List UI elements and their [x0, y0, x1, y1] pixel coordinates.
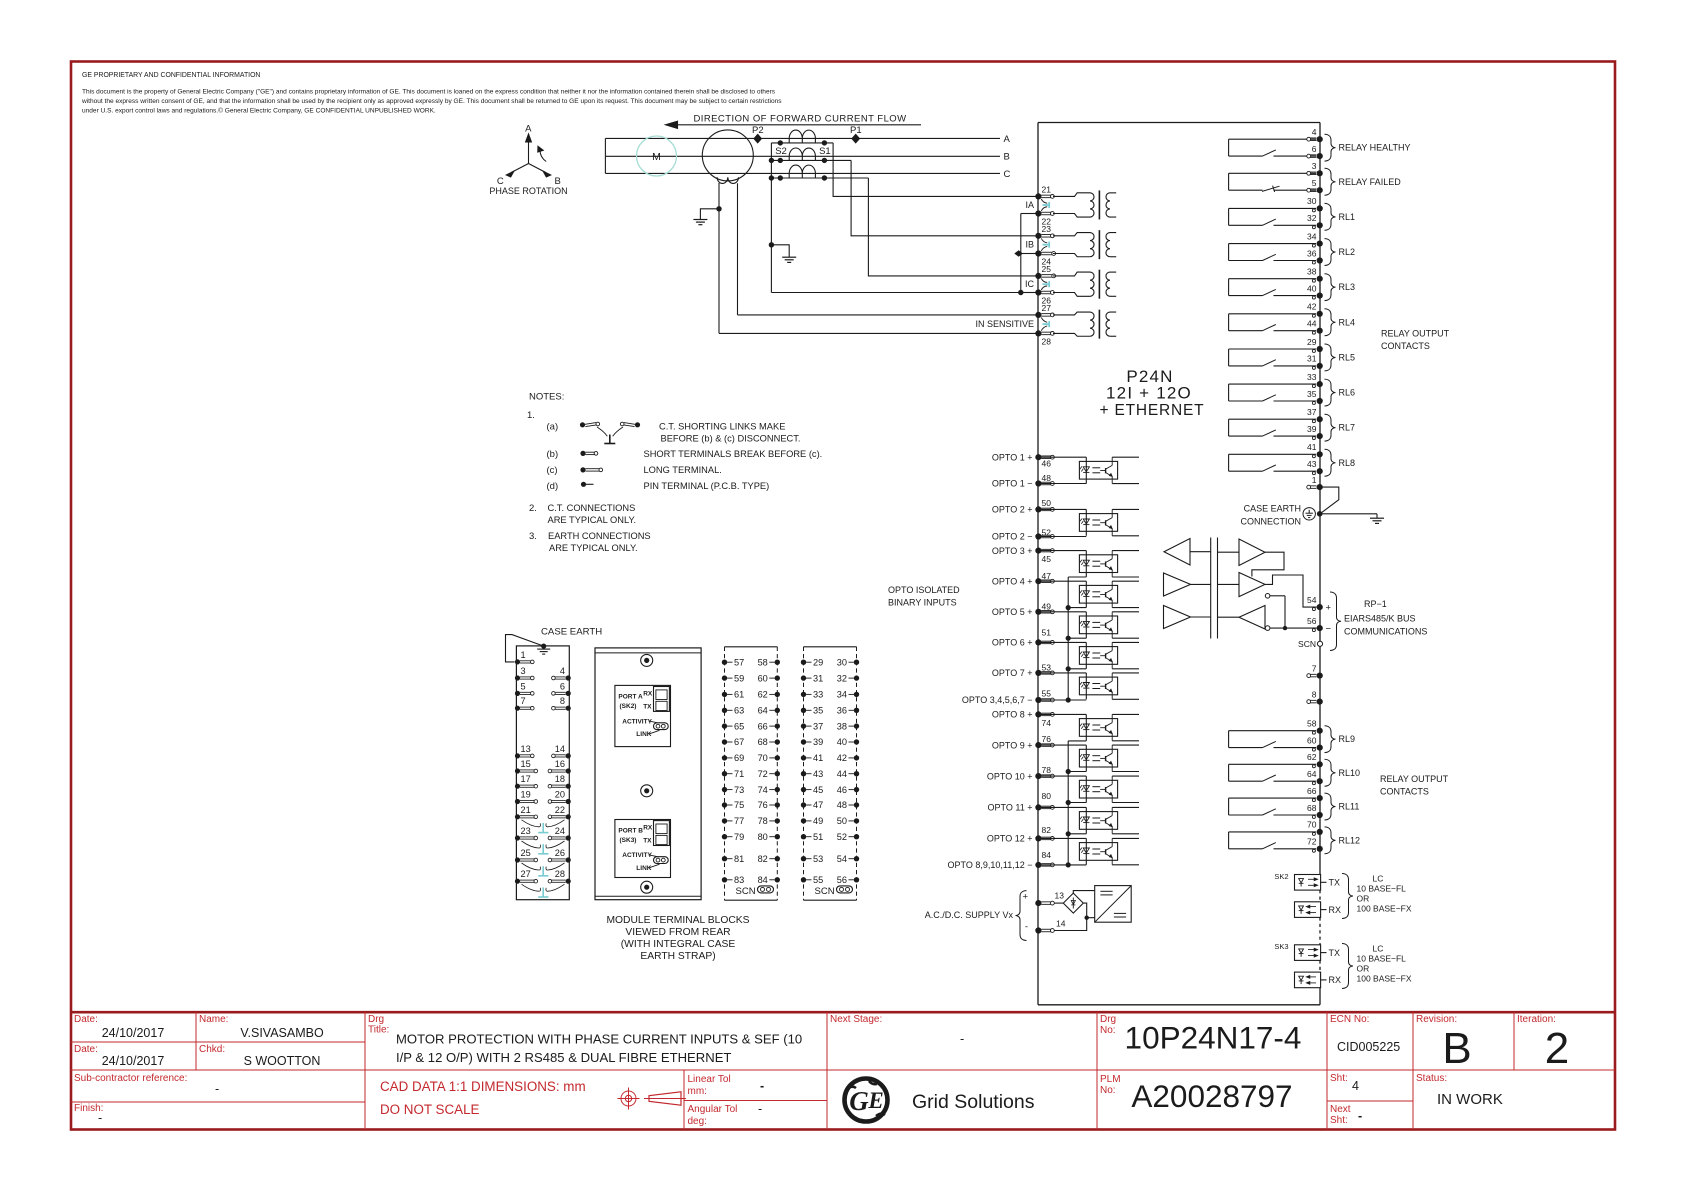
- block terminal 67/68: [722, 737, 780, 747]
- wire U2 output crossover: [1252, 552, 1284, 576]
- opto-coupler U6: [1041, 642, 1139, 668]
- svg-text:LONG TERMINAL.: LONG TERMINAL.: [644, 465, 722, 475]
- node P1: [852, 134, 859, 142]
- svg-text:5: 5: [521, 681, 526, 691]
- relay contact RL10: [1229, 752, 1360, 786]
- svg-text:30: 30: [1307, 196, 1317, 206]
- direction arrow: [676, 124, 921, 126]
- wire: [1218, 551, 1240, 553]
- svg-text:43: 43: [813, 769, 823, 779]
- wire terminal 14 to converter: [1054, 918, 1095, 931]
- terminal 26: [1035, 289, 1041, 295]
- svg-text:+: +: [1022, 892, 1028, 903]
- block1 terminal 27/28: [515, 869, 571, 884]
- terminal 84: [1035, 862, 1041, 868]
- wire terminal 55 to opto 7 return: [1041, 699, 1086, 701]
- svg-text:64: 64: [1307, 769, 1317, 779]
- wire enable net: [1270, 595, 1285, 597]
- brace SK2: [1342, 874, 1353, 919]
- svg-text:RL9: RL9: [1339, 734, 1356, 744]
- svg-text:Drg: Drg: [368, 1014, 384, 1025]
- terminal 27: [1035, 312, 1041, 318]
- CT shorting link IA: [1041, 199, 1047, 203]
- svg-text:14: 14: [555, 744, 565, 754]
- dc-dc converter: [1095, 886, 1132, 923]
- svg-text:CASE EARTH: CASE EARTH: [541, 627, 602, 638]
- svg-text:−: −: [1326, 623, 1332, 634]
- block terminal 31/32: [801, 673, 859, 683]
- svg-text:24/10/2017: 24/10/2017: [102, 1026, 165, 1040]
- svg-text:58: 58: [1307, 719, 1317, 729]
- terminal 13: [1035, 900, 1041, 906]
- svg-text:BINARY INPUTS: BINARY INPUTS: [888, 598, 957, 608]
- brace Vx supply: [1016, 891, 1027, 941]
- svg-text:43: 43: [1307, 459, 1317, 469]
- svg-text:32: 32: [837, 673, 847, 683]
- CT winding on phase line: [789, 148, 815, 156]
- svg-text:(c): (c): [547, 465, 558, 476]
- phase line B: [605, 155, 1000, 157]
- wire S1 C to terminal 25: [868, 178, 1036, 276]
- opto-coupler U9: [1041, 745, 1139, 771]
- svg-text:-: -: [758, 1102, 762, 1116]
- svg-text:40: 40: [1307, 283, 1317, 293]
- terminal 28: [1035, 330, 1041, 336]
- svg-text:OPTO ISOLATED: OPTO ISOLATED: [888, 585, 960, 595]
- svg-text:BEFORE (b) & (c) DISCONNECT.: BEFORE (b) & (c) DISCONNECT.: [661, 434, 801, 444]
- cone symbol: [649, 1092, 681, 1105]
- block1 terminal 21/22: [515, 805, 571, 820]
- svg-text:DO NOT SCALE: DO NOT SCALE: [380, 1102, 480, 1117]
- svg-text:OPTO 3,4,5,6,7 −: OPTO 3,4,5,6,7 −: [962, 695, 1033, 705]
- svg-text:ECN No:: ECN No:: [1330, 1014, 1369, 1025]
- svg-text:3.: 3.: [529, 531, 537, 542]
- svg-text:-: -: [98, 1111, 102, 1125]
- wire S1 A to terminal 21: [833, 143, 1036, 197]
- block1 shorting link 3: [522, 863, 565, 876]
- svg-text:Title:: Title:: [368, 1025, 389, 1036]
- block terminal 37/38: [801, 721, 859, 731]
- svg-text:37: 37: [813, 721, 823, 731]
- svg-text:7: 7: [521, 696, 526, 706]
- svg-text:82: 82: [1042, 825, 1052, 835]
- svg-text:RL10: RL10: [1339, 768, 1361, 778]
- node P2: [754, 134, 761, 142]
- svg-text:OPTO 6 +: OPTO 6 +: [992, 638, 1033, 648]
- svg-text:SCN: SCN: [1298, 639, 1316, 649]
- svg-text:72: 72: [758, 769, 768, 779]
- svg-text:26: 26: [555, 848, 565, 858]
- svg-text:7: 7: [1312, 663, 1317, 673]
- svg-text:OPTO 4 +: OPTO 4 +: [992, 576, 1033, 586]
- block1 terminal 19/20: [515, 790, 571, 805]
- svg-text:CAD DATA 1:1 DIMENSIONS: mm: CAD DATA 1:1 DIMENSIONS: mm: [380, 1079, 586, 1094]
- fibre transmitter SK2 TX: [1295, 875, 1321, 891]
- svg-text:SCN: SCN: [736, 886, 756, 897]
- svg-text:32: 32: [1307, 213, 1317, 223]
- svg-text:62: 62: [1307, 752, 1317, 762]
- svg-text:59: 59: [734, 673, 744, 683]
- svg-text:21: 21: [1042, 184, 1052, 194]
- terminal 7: [1317, 673, 1323, 679]
- phase line A: [605, 137, 1000, 139]
- svg-text:Status:: Status:: [1416, 1073, 1447, 1084]
- block1 shorting link 4: [522, 884, 565, 897]
- svg-text:41: 41: [1307, 442, 1317, 452]
- svg-text:51: 51: [813, 832, 823, 842]
- svg-text:A20028797: A20028797: [1131, 1078, 1292, 1114]
- svg-text:49: 49: [813, 816, 823, 826]
- svg-text:SK3: SK3: [1274, 942, 1288, 951]
- svg-text:21: 21: [521, 805, 531, 815]
- svg-text:PHASE ROTATION: PHASE ROTATION: [489, 186, 567, 196]
- svg-text:29: 29: [813, 657, 823, 667]
- svg-text:Drg: Drg: [1100, 1014, 1116, 1025]
- svg-text:73: 73: [734, 785, 744, 795]
- svg-text:(d): (d): [547, 481, 559, 492]
- wire CBCT to terminal 27: [738, 314, 1037, 316]
- core balance CT ring: [702, 130, 753, 181]
- svg-text:76: 76: [758, 800, 768, 810]
- terminal 50: [1035, 506, 1041, 512]
- terminal 45: [1035, 548, 1041, 554]
- svg-text:1.: 1.: [527, 410, 535, 421]
- wire opto 3-7 common bus: [1067, 577, 1069, 700]
- svg-text:IN SENSITIVE: IN SENSITIVE: [975, 319, 1034, 329]
- svg-text:(WITH INTEGRAL CASE: (WITH INTEGRAL CASE: [621, 939, 736, 950]
- note symbol a: [580, 422, 640, 443]
- svg-text:OPTO 5 +: OPTO 5 +: [992, 607, 1033, 617]
- svg-text:GE PROPRIETARY AND CONFIDENTIA: GE PROPRIETARY AND CONFIDENTIAL INFORMAT…: [82, 72, 260, 79]
- svg-text:40: 40: [837, 737, 847, 747]
- svg-text:S WOOTTON: S WOOTTON: [244, 1054, 321, 1068]
- block terminal 57/58: [722, 657, 780, 667]
- svg-text:CASE EARTH: CASE EARTH: [1244, 504, 1301, 514]
- svg-text:OPTO 3 +: OPTO 3 +: [992, 546, 1033, 556]
- svg-text:S1: S1: [819, 146, 831, 157]
- svg-text:RL8: RL8: [1339, 458, 1356, 468]
- svg-text:EARTH CONNECTIONS: EARTH CONNECTIONS: [548, 531, 651, 541]
- svg-text:69: 69: [734, 753, 744, 763]
- svg-text:100 BASE−FX: 100 BASE−FX: [1357, 974, 1412, 984]
- svg-text:ACTIVITY: ACTIVITY: [622, 852, 652, 859]
- svg-text:20: 20: [555, 790, 565, 800]
- svg-text:5: 5: [1312, 178, 1317, 188]
- svg-text:(a): (a): [547, 422, 559, 433]
- svg-text:G: G: [849, 1086, 869, 1116]
- block terminal 79/80: [722, 832, 780, 842]
- svg-text:Angular Tol: Angular Tol: [688, 1104, 738, 1115]
- RS485 receiver buffer U1: [1164, 539, 1190, 566]
- svg-text:RL12: RL12: [1339, 835, 1361, 845]
- svg-text:64: 64: [758, 706, 768, 716]
- terminal 14: [1035, 927, 1041, 933]
- input transformer IA: [1053, 190, 1116, 219]
- svg-text:C.T. CONNECTIONS: C.T. CONNECTIONS: [548, 503, 636, 513]
- svg-text:2.: 2.: [529, 503, 537, 514]
- svg-text:LC: LC: [1373, 944, 1384, 954]
- svg-text:84: 84: [1042, 850, 1052, 860]
- svg-text:LC: LC: [1373, 874, 1384, 884]
- rectifier bridge: [1063, 893, 1083, 913]
- svg-text:46: 46: [837, 785, 847, 795]
- terminal block 3 outline: [725, 646, 778, 648]
- svg-text:COMMUNICATIONS: COMMUNICATIONS: [1344, 627, 1427, 637]
- block terminal 75/76: [722, 800, 780, 810]
- svg-text:56: 56: [837, 875, 847, 885]
- fibre transmitter SK3 TX: [1295, 945, 1321, 961]
- block terminal 65/66: [722, 721, 780, 731]
- terminal block 1 outline: [516, 646, 569, 900]
- svg-text:25: 25: [1042, 264, 1052, 274]
- svg-text:13: 13: [1055, 891, 1065, 901]
- svg-text:RELAY FAILED: RELAY FAILED: [1339, 177, 1402, 187]
- opto-coupler U8: [1041, 714, 1139, 740]
- svg-text:42: 42: [837, 753, 847, 763]
- terminal 49: [1035, 609, 1041, 615]
- svg-text:47: 47: [813, 800, 823, 810]
- svg-text:52: 52: [1042, 527, 1052, 537]
- svg-text:55: 55: [1042, 688, 1052, 698]
- ground symbol case earth: [1370, 517, 1384, 519]
- svg-text:41: 41: [813, 753, 823, 763]
- CT shorting link IB: [1041, 238, 1047, 242]
- svg-text:24: 24: [555, 826, 565, 836]
- svg-text:78: 78: [758, 816, 768, 826]
- terminal 52: [1035, 533, 1041, 539]
- svg-text:67: 67: [734, 737, 744, 747]
- svg-text:10P24N17-4: 10P24N17-4: [1125, 1020, 1302, 1056]
- svg-text:74: 74: [758, 785, 768, 795]
- svg-text:RX: RX: [643, 825, 653, 832]
- terminal block 2 fibre module outline: [595, 648, 701, 900]
- svg-text:IB: IB: [1025, 240, 1034, 250]
- svg-text:1: 1: [1312, 475, 1317, 485]
- wire S2 common bus: [770, 143, 772, 293]
- svg-text:M: M: [652, 151, 661, 163]
- earth tap on CBCT lead: [716, 206, 721, 211]
- fibre receiver SK3 RX: [1295, 972, 1321, 988]
- svg-text:70: 70: [758, 753, 768, 763]
- block1 shorting link 2: [522, 841, 565, 854]
- block1 terminal 1: [515, 650, 534, 665]
- wire: [1218, 616, 1240, 618]
- svg-text:P2: P2: [752, 125, 764, 136]
- terminal 1: [1317, 484, 1323, 490]
- terminal 8: [1317, 699, 1323, 705]
- terminal 51: [1035, 639, 1041, 645]
- block2 screw: [641, 881, 653, 893]
- block terminal 39/40: [801, 737, 859, 747]
- block terminal 61/62: [722, 690, 780, 700]
- svg-text:4: 4: [1352, 1079, 1359, 1093]
- svg-text:Name:: Name:: [199, 1014, 228, 1025]
- svg-text:31: 31: [1307, 354, 1317, 364]
- svg-text:ARE TYPICAL ONLY.: ARE TYPICAL ONLY.: [549, 543, 638, 553]
- port B box: [615, 820, 671, 878]
- svg-text:17: 17: [521, 774, 531, 784]
- opto-coupler U4: [1041, 581, 1139, 607]
- block terminal 33/34: [801, 690, 859, 700]
- block1 shorting link 1: [522, 820, 565, 833]
- block1 terminal 17/18: [515, 774, 571, 789]
- block1 terminal 23/24: [515, 826, 571, 841]
- svg-text:39: 39: [1307, 424, 1317, 434]
- svg-text:RX: RX: [1329, 975, 1342, 985]
- svg-text:33: 33: [1307, 372, 1317, 382]
- svg-text:OPTO 8,9,10,11,12 −: OPTO 8,9,10,11,12 −: [948, 860, 1033, 870]
- block2 screw: [641, 785, 653, 797]
- svg-text:Sub-contractor reference:: Sub-contractor reference:: [74, 1073, 187, 1084]
- svg-text:48: 48: [837, 800, 847, 810]
- RS485 driver U3: [1164, 573, 1191, 596]
- svg-text:PLM: PLM: [1100, 1074, 1121, 1085]
- title block frame: [71, 1011, 1615, 1014]
- svg-text:TX: TX: [643, 704, 652, 711]
- terminal 25: [1035, 273, 1041, 279]
- brace SK3: [1342, 944, 1353, 989]
- wire case earth to ground: [1320, 513, 1377, 515]
- CT shorting link IN SENSITIVE: [1041, 318, 1047, 323]
- phase line C: [605, 172, 1000, 174]
- svg-text:84: 84: [758, 875, 768, 885]
- phase bus left riser: [604, 138, 606, 173]
- svg-text:53: 53: [813, 854, 823, 864]
- svg-text:NOTES:: NOTES:: [529, 392, 564, 403]
- block2 screw: [641, 654, 653, 666]
- svg-text:+: +: [1326, 602, 1332, 613]
- terminal SCN: [1317, 641, 1322, 646]
- svg-text:77: 77: [734, 816, 744, 826]
- wire return bus 22-24-26: [1020, 214, 1022, 293]
- svg-text:OPTO 9 +: OPTO 9 +: [992, 740, 1033, 750]
- wire U4 output to terminal 54: [1265, 575, 1317, 607]
- svg-text:S2: S2: [775, 146, 787, 157]
- block terminal 45/46: [801, 785, 859, 795]
- block terminal 47/48: [801, 800, 859, 810]
- wire opto 1 return: [1041, 483, 1086, 485]
- wire to terminal 56: [1270, 627, 1317, 629]
- svg-text:36: 36: [837, 706, 847, 716]
- svg-text:8: 8: [560, 696, 565, 706]
- enable bubble 2: [1265, 626, 1270, 631]
- svg-text:MOTOR PROTECTION WITH PHASE CU: MOTOR PROTECTION WITH PHASE CURRENT INPU…: [396, 1032, 802, 1047]
- svg-text:Sht:: Sht:: [1330, 1073, 1348, 1084]
- svg-text:C.T. SHORTING LINKS MAKE: C.T. SHORTING LINKS MAKE: [659, 422, 785, 432]
- svg-text:B: B: [1442, 1024, 1471, 1073]
- svg-text:60: 60: [758, 673, 768, 683]
- svg-text:VIEWED FROM REAR: VIEWED FROM REAR: [625, 927, 730, 938]
- svg-text:OPTO 1 +: OPTO 1 +: [992, 452, 1033, 462]
- terminal 24: [1035, 250, 1041, 256]
- CT B secondary wire: [771, 159, 851, 161]
- svg-text:This document is the property: This document is the property of General…: [82, 89, 776, 96]
- svg-text:45: 45: [1042, 554, 1052, 564]
- wire: [1218, 583, 1240, 585]
- svg-text:IA: IA: [1025, 200, 1034, 210]
- svg-text:35: 35: [1307, 389, 1317, 399]
- svg-text:27: 27: [521, 869, 531, 879]
- svg-text:DIRECTION OF FORWARD CURREN: DIRECTION OF FORWARD CURRENT FLOW: [693, 114, 906, 125]
- svg-text:54: 54: [1307, 595, 1317, 605]
- svg-text:55: 55: [813, 875, 823, 885]
- svg-text:62: 62: [758, 690, 768, 700]
- svg-text:TX: TX: [1329, 948, 1341, 958]
- terminal 80: [1035, 804, 1041, 810]
- block terminal 83/84: [722, 875, 780, 885]
- case earth strap: [506, 635, 544, 662]
- terminal 23: [1035, 233, 1041, 239]
- core balance CT secondary winding: [717, 177, 738, 183]
- terminal 56: [1317, 625, 1323, 631]
- svg-text:RELAY OUTPUT: RELAY OUTPUT: [1381, 329, 1450, 339]
- svg-text:4: 4: [1312, 127, 1317, 137]
- svg-text:mm:: mm:: [688, 1086, 707, 1097]
- svg-text:E: E: [867, 1088, 883, 1113]
- svg-text:OPTO 2 −: OPTO 2 −: [992, 532, 1033, 542]
- relay contact RL12: [1229, 820, 1360, 854]
- svg-text:SHORT TERMINALS BREAK BEFORE (: SHORT TERMINALS BREAK BEFORE (c).: [644, 449, 823, 459]
- svg-text:C: C: [1004, 169, 1011, 180]
- opto-coupler U2: [1041, 509, 1139, 535]
- svg-text:I/P & 12 O/P) WITH 2 RS485 & D: I/P & 12 O/P) WITH 2 RS485 & DUAL FIBRE …: [396, 1050, 731, 1065]
- svg-text:RELAY HEALTHY: RELAY HEALTHY: [1339, 143, 1411, 153]
- svg-text:48: 48: [1042, 473, 1052, 483]
- svg-text:PORT B: PORT B: [618, 828, 643, 835]
- relay contact RELAY FAILED: [1229, 161, 1402, 195]
- block terminal 55/56: [801, 875, 859, 885]
- block terminal 59/60: [722, 673, 780, 683]
- svg-text:34: 34: [1307, 231, 1317, 241]
- svg-text:66: 66: [1307, 786, 1317, 796]
- relay contact RL3: [1229, 267, 1355, 301]
- svg-text:TX: TX: [643, 838, 652, 845]
- block1 terminal 15/16: [515, 759, 571, 774]
- CT A secondary wire: [771, 142, 833, 144]
- input transformer IN SENSITIVE: [1053, 310, 1116, 339]
- block1 terminal 25/26: [515, 848, 571, 863]
- svg-text:Date:: Date:: [74, 1014, 98, 1025]
- svg-text:38: 38: [1307, 267, 1317, 277]
- svg-text:18: 18: [555, 774, 565, 784]
- relay contact RL1: [1229, 196, 1355, 230]
- svg-text:ACTIVITY: ACTIVITY: [622, 718, 652, 725]
- svg-text:4: 4: [560, 666, 565, 676]
- svg-text:-: -: [1358, 1109, 1362, 1123]
- svg-text:EARTH STRAP): EARTH STRAP): [640, 951, 715, 962]
- datum target symbol: [621, 1091, 636, 1106]
- svg-text:82: 82: [758, 854, 768, 864]
- svg-text:-: -: [960, 1032, 964, 1046]
- relay contact RL7: [1229, 407, 1355, 441]
- input transformer IC: [1053, 270, 1116, 299]
- svg-text:34: 34: [837, 690, 847, 700]
- terminal 22: [1035, 210, 1041, 216]
- RS485 buffer U5: [1164, 606, 1191, 629]
- svg-text:(SK2): (SK2): [620, 703, 637, 710]
- CT shorting link IC: [1041, 279, 1047, 283]
- svg-text:PORT A: PORT A: [618, 694, 643, 701]
- terminal 48: [1035, 480, 1041, 486]
- svg-text:SK2: SK2: [1274, 872, 1288, 881]
- svg-text:Grid Solutions: Grid Solutions: [912, 1091, 1035, 1113]
- svg-text:10 BASE−FL: 10 BASE−FL: [1357, 954, 1407, 964]
- terminal 46: [1035, 454, 1041, 460]
- CT C secondary wire: [771, 177, 868, 179]
- svg-text:65: 65: [734, 721, 744, 731]
- input transformer IB: [1053, 230, 1116, 259]
- svg-text:16: 16: [555, 759, 565, 769]
